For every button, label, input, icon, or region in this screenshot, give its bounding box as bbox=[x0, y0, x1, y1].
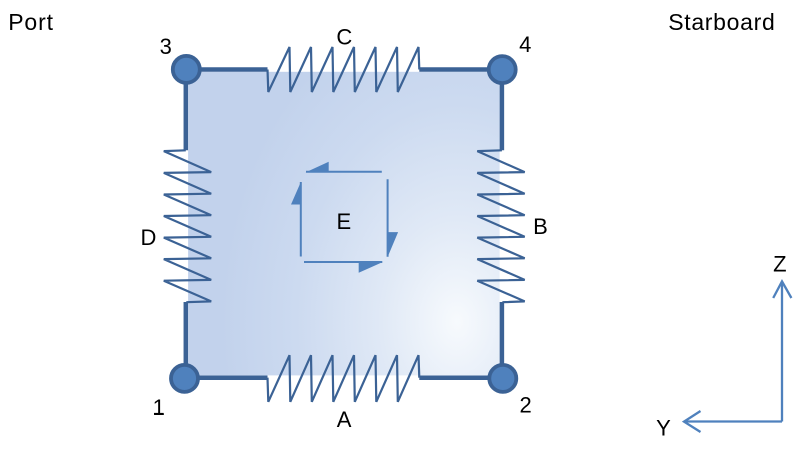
rotation arrow E right bbox=[388, 179, 399, 256]
node 4 bbox=[489, 56, 516, 83]
wire top-left bbox=[186, 67, 268, 72]
spring D bbox=[164, 150, 211, 302]
spring B bbox=[477, 150, 524, 302]
svg-text:Starboard: Starboard bbox=[668, 9, 775, 35]
node 3 bbox=[173, 56, 200, 83]
wire right-upper bbox=[500, 70, 505, 151]
plate fill bbox=[188, 72, 500, 376]
wire bottom-right bbox=[419, 375, 502, 380]
svg-text:A: A bbox=[337, 407, 352, 432]
svg-text:B: B bbox=[533, 214, 548, 239]
node 2 bbox=[489, 365, 516, 392]
svg-text:3: 3 bbox=[160, 34, 172, 59]
rotation arrow E left bbox=[291, 182, 301, 257]
axis Y arrow bbox=[684, 411, 782, 432]
spring A bbox=[268, 355, 420, 402]
wire left-lower bbox=[184, 302, 189, 378]
wire top-right bbox=[419, 67, 502, 72]
svg-text:Port: Port bbox=[8, 9, 54, 35]
svg-text:D: D bbox=[140, 225, 156, 250]
svg-text:4: 4 bbox=[519, 32, 531, 57]
node 1 bbox=[171, 365, 198, 392]
wire left-upper bbox=[184, 70, 189, 151]
axis Z arrow bbox=[773, 281, 791, 421]
spring C bbox=[268, 47, 420, 92]
wire right-lower bbox=[500, 302, 505, 378]
svg-text:2: 2 bbox=[519, 392, 531, 417]
svg-text:E: E bbox=[337, 209, 352, 234]
rotation arrow E bottom bbox=[304, 262, 382, 273]
rotation arrow E top bbox=[306, 162, 382, 173]
svg-text:Z: Z bbox=[773, 252, 786, 277]
svg-text:C: C bbox=[336, 25, 352, 50]
svg-text:1: 1 bbox=[153, 395, 165, 420]
svg-text:Y: Y bbox=[656, 416, 671, 441]
wire bottom-left bbox=[186, 375, 268, 380]
